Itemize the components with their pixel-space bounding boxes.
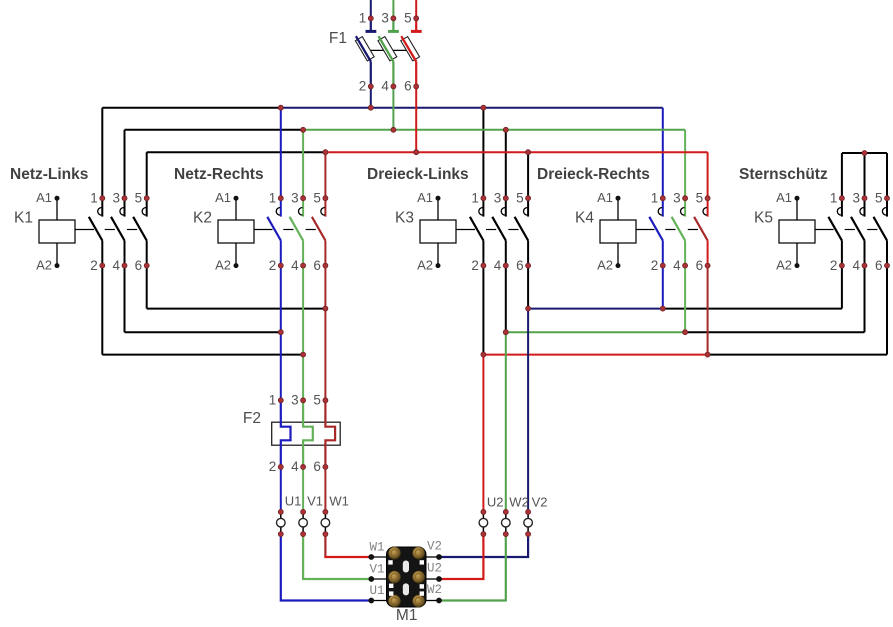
svg-text:2: 2	[90, 258, 98, 273]
svg-text:Sternschütz: Sternschütz	[739, 166, 828, 183]
svg-text:5: 5	[313, 393, 321, 408]
svg-text:W2: W2	[427, 583, 442, 597]
svg-text:2: 2	[651, 258, 659, 273]
svg-text:3: 3	[381, 11, 389, 26]
svg-text:U1: U1	[370, 584, 385, 598]
svg-text:6: 6	[875, 258, 883, 273]
svg-text:1: 1	[269, 393, 277, 408]
svg-text:Dreieck-Rechts: Dreieck-Rechts	[537, 166, 650, 183]
svg-text:5: 5	[516, 191, 524, 206]
svg-text:U2: U2	[427, 562, 442, 576]
svg-text:5: 5	[313, 191, 321, 206]
svg-text:A1: A1	[417, 190, 433, 205]
svg-text:A2: A2	[776, 257, 792, 272]
svg-text:3: 3	[112, 191, 120, 206]
svg-text:K3: K3	[395, 210, 414, 227]
svg-text:3: 3	[673, 191, 681, 206]
svg-text:M1: M1	[396, 607, 418, 622]
svg-text:4: 4	[381, 79, 389, 94]
svg-text:2: 2	[471, 258, 479, 273]
svg-text:U2: U2	[487, 494, 504, 509]
svg-text:U1: U1	[285, 494, 302, 509]
svg-text:Netz-Rechts: Netz-Rechts	[174, 166, 264, 183]
svg-text:V1: V1	[370, 563, 385, 577]
svg-text:3: 3	[494, 191, 502, 206]
svg-text:3: 3	[291, 393, 299, 408]
svg-text:A1: A1	[215, 190, 231, 205]
svg-text:A2: A2	[597, 257, 613, 272]
svg-text:4: 4	[291, 459, 299, 474]
svg-text:A2: A2	[215, 257, 231, 272]
svg-text:1: 1	[90, 191, 98, 206]
svg-text:4: 4	[673, 258, 681, 273]
svg-text:A2: A2	[36, 257, 52, 272]
svg-text:5: 5	[404, 11, 412, 26]
svg-text:2: 2	[269, 258, 277, 273]
svg-text:Dreieck-Links: Dreieck-Links	[367, 166, 469, 183]
svg-text:V1: V1	[307, 494, 323, 509]
svg-text:W2: W2	[509, 494, 529, 509]
svg-text:F2: F2	[243, 410, 261, 427]
svg-text:2: 2	[269, 459, 277, 474]
svg-text:3: 3	[291, 191, 299, 206]
svg-text:W1: W1	[329, 494, 349, 509]
svg-text:1: 1	[269, 191, 277, 206]
svg-text:K2: K2	[193, 210, 212, 227]
svg-text:6: 6	[313, 258, 321, 273]
svg-text:6: 6	[135, 258, 143, 273]
svg-text:6: 6	[404, 79, 412, 94]
svg-text:6: 6	[313, 459, 321, 474]
svg-text:F1: F1	[329, 30, 347, 47]
svg-text:3: 3	[852, 191, 860, 206]
svg-text:2: 2	[830, 258, 838, 273]
svg-text:1: 1	[651, 191, 659, 206]
svg-text:1: 1	[471, 191, 479, 206]
svg-text:5: 5	[135, 191, 143, 206]
svg-text:4: 4	[494, 258, 502, 273]
svg-text:5: 5	[696, 191, 704, 206]
svg-text:4: 4	[291, 258, 299, 273]
svg-text:6: 6	[696, 258, 704, 273]
svg-text:5: 5	[875, 191, 883, 206]
svg-text:Netz-Links: Netz-Links	[10, 166, 88, 183]
svg-text:V2: V2	[427, 540, 442, 554]
svg-text:1: 1	[830, 191, 838, 206]
svg-text:K4: K4	[575, 210, 594, 227]
svg-text:A1: A1	[36, 190, 52, 205]
svg-text:W1: W1	[370, 541, 385, 555]
svg-text:A1: A1	[597, 190, 613, 205]
svg-text:4: 4	[112, 258, 120, 273]
svg-text:K5: K5	[754, 210, 773, 227]
svg-text:4: 4	[852, 258, 860, 273]
svg-text:A1: A1	[776, 190, 792, 205]
svg-text:V2: V2	[532, 494, 548, 509]
svg-text:K1: K1	[14, 210, 33, 227]
svg-text:1: 1	[359, 11, 367, 26]
svg-text:A2: A2	[417, 257, 433, 272]
svg-text:2: 2	[359, 79, 367, 94]
svg-text:6: 6	[516, 258, 524, 273]
